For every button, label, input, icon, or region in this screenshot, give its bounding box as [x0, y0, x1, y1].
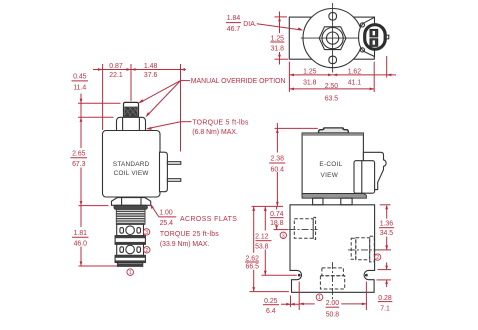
connector pin A (top view) [370, 29, 378, 37]
dimension 0.45/11.4 (knob height, left) [72, 74, 121, 118]
svg-text:1.48: 1.48 [144, 63, 158, 70]
dimension 1.81/46.0 (cartridge length, left) [72, 206, 117, 266]
label MANUAL OVERRIDE OPTION with leaders [138, 78, 286, 117]
e-coil label [319, 161, 342, 179]
svg-text:0.87: 0.87 [109, 63, 123, 70]
svg-text:2: 2 [145, 248, 148, 254]
coil terminal pin 1 [167, 162, 180, 165]
cartridge threads [116, 209, 145, 224]
port 1 cavity (dashed, manifold) [320, 262, 344, 300]
dimension 1.84/46.7 DIA leader [226, 15, 303, 33]
svg-text:2.65: 2.65 [72, 150, 86, 157]
svg-text:1.36: 1.36 [380, 221, 394, 228]
dimension 1.25/31.8 and 1.62/41.1 horizontal (below top view) [289, 56, 396, 92]
svg-text:53.8: 53.8 [255, 243, 269, 250]
svg-text:ACROSS FLATS: ACROSS FLATS [180, 216, 237, 223]
svg-text:2.62: 2.62 [245, 255, 259, 262]
port 1 label (cartridge) [127, 269, 134, 276]
e-coil mounting foot left [313, 198, 323, 205]
e-coil mounting foot right [341, 198, 352, 205]
svg-text:(6.8 Nm) MAX.: (6.8 Nm) MAX. [192, 129, 238, 136]
port 2 label (manifold) [374, 254, 380, 261]
hex adjuster nut (top view) [319, 27, 346, 50]
e-coil body [302, 133, 363, 196]
svg-text:63.5: 63.5 [325, 95, 339, 102]
svg-text:6.4: 6.4 [266, 308, 276, 315]
svg-text:7.1: 7.1 [380, 306, 390, 313]
cartridge stem section B with cross hole [117, 244, 144, 255]
mounting hole right [365, 274, 368, 277]
svg-text:46.0: 46.0 [74, 241, 88, 248]
connector oval shell (top view) [364, 24, 389, 51]
svg-text:34.5: 34.5 [380, 230, 394, 237]
svg-text:0.28: 0.28 [378, 295, 392, 302]
svg-text:VIEW: VIEW [321, 172, 339, 179]
svg-text:22.1: 22.1 [109, 72, 123, 79]
dimension 2.38/60.4 (e-coil height) [252, 123, 318, 206]
svg-text:31.8: 31.8 [303, 79, 317, 86]
svg-text:0.74: 0.74 [270, 211, 284, 218]
svg-text:E-COIL: E-COIL [319, 161, 342, 168]
tube ring (top view) [322, 27, 343, 48]
label TORQUE 5 ft-lbs with leader [146, 119, 249, 136]
port 2 cavity (dashed, manifold) [348, 236, 380, 262]
inner bore circle (top view) [327, 32, 339, 44]
svg-text:2.38: 2.38 [270, 156, 284, 163]
manifold block outline [290, 205, 375, 292]
svg-text:0.45: 0.45 [73, 74, 87, 81]
e-coil bottom flange [302, 194, 366, 199]
horizontal centerline (top view) [301, 37, 365, 39]
port 1 label (manifold) [316, 294, 323, 301]
nose band [115, 255, 145, 262]
dimension 0.25/6.4 (hole offset) [263, 282, 299, 316]
cartridge collar [114, 205, 147, 209]
svg-text:0.25: 0.25 [264, 298, 278, 305]
svg-text:46.7: 46.7 [227, 26, 241, 33]
svg-text:2.50: 2.50 [325, 83, 339, 90]
coil housing rectangle (top view) [289, 17, 374, 59]
svg-text:TORQUE 5 ft-lbs: TORQUE 5 ft-lbs [192, 119, 249, 126]
port 3 cavity (dashed, manifold) [289, 217, 318, 239]
svg-text:MANUAL OVERRIDE OPTION: MANUAL OVERRIDE OPTION [191, 78, 286, 85]
connector flange bracket (top view) [359, 17, 375, 56]
label TORQUE 25 ft-lbs [160, 231, 219, 248]
svg-text:2.12: 2.12 [255, 234, 269, 241]
svg-text:1.84: 1.84 [227, 15, 241, 22]
svg-text:1: 1 [318, 295, 321, 301]
svg-text:37.6: 37.6 [144, 72, 158, 79]
svg-text:STANDARD: STANDARD [113, 161, 150, 168]
top tab (top view) [329, 13, 337, 20]
svg-text:11.4: 11.4 [73, 84, 86, 91]
svg-text:31.8: 31.8 [271, 45, 285, 52]
svg-text:25.4: 25.4 [160, 220, 174, 227]
coil lead connector step [160, 152, 168, 192]
svg-text:3: 3 [145, 230, 148, 236]
svg-text:2: 2 [376, 255, 379, 261]
svg-text:18.8: 18.8 [270, 220, 284, 227]
port 3 label (manifold) [280, 232, 286, 239]
dimension 0.87/22.1 and 1.48/37.6 (above body) [93, 63, 186, 151]
svg-text:60.4: 60.4 [270, 167, 284, 174]
svg-text:41.1: 41.1 [348, 79, 362, 86]
coil circular body (top view) [303, 8, 362, 67]
e-coil connector rear block [363, 152, 386, 189]
manual override knurled knob [124, 102, 139, 117]
dimension 2.12/53.8 (hole center depth) [255, 206, 297, 275]
connector pin B (top view) [370, 39, 378, 47]
svg-text:1.62: 1.62 [348, 69, 362, 76]
dimension 1.00/25.4 ACROSS FLATS with leader [150, 203, 237, 227]
coil terminal pin 2 [167, 179, 180, 182]
cartridge stem section A with cross hole [117, 224, 144, 235]
svg-text:1.25: 1.25 [271, 35, 285, 42]
dimension 0.28/7.1 (ear height) [377, 263, 393, 313]
dimension 1.36/34.5 (port 2 depth) [379, 205, 394, 250]
dimension 2.62/66.5 (block height) [245, 206, 289, 291]
dimension 2.65/67.3 (coil height, left) [71, 117, 109, 205]
cartridge tip [118, 263, 143, 267]
svg-text:COIL VIEW: COIL VIEW [114, 170, 150, 177]
svg-text:50.8: 50.8 [326, 311, 340, 318]
dimension 0.74/18.8 (port 3 depth) [270, 206, 288, 229]
svg-text:1.00: 1.00 [159, 210, 173, 217]
port 2 label (cartridge) [144, 247, 150, 254]
dimension 1.25/31.8 vertical (top view left) [270, 12, 288, 65]
svg-text:1.25: 1.25 [303, 69, 317, 76]
svg-text:66.5: 66.5 [245, 264, 259, 271]
svg-text:67.3: 67.3 [72, 161, 86, 168]
svg-text:(33.9 Nm) MAX.: (33.9 Nm) MAX. [160, 241, 209, 248]
bottom tab (top view) [329, 56, 337, 63]
standard coil body [103, 131, 161, 198]
e-coil connector front plate [354, 161, 375, 194]
mounting hole left [298, 274, 301, 277]
svg-text:DIA.: DIA. [243, 21, 256, 28]
label STANDARD COIL VIEW [113, 161, 150, 177]
dimension 2.50/63.5 (below top view) [289, 83, 374, 103]
cartridge hex nut (across flats) [112, 198, 151, 206]
dimension 2.00/50.8 (hole spacing) [299, 282, 366, 319]
svg-text:1: 1 [129, 270, 132, 276]
vertical centerline (top view) [332, 3, 334, 73]
o-ring gland band [115, 236, 145, 245]
svg-text:TORQUE 25 ft-lbs: TORQUE 25 ft-lbs [160, 231, 219, 238]
e-coil top cap [319, 128, 349, 133]
port 3 label (cartridge) [143, 229, 149, 236]
coil hex nut (front view) [117, 117, 146, 131]
svg-text:2.00: 2.00 [326, 300, 340, 307]
svg-text:3: 3 [282, 233, 285, 239]
svg-text:1.81: 1.81 [74, 230, 88, 237]
